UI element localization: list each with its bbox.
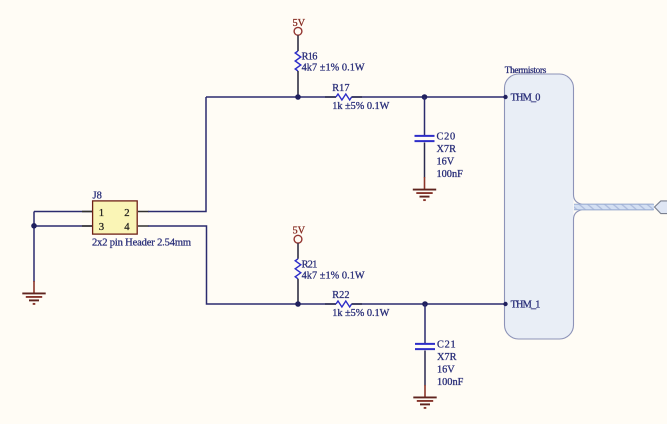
svg-text:R22: R22 <box>332 290 349 301</box>
svg-text:16V: 16V <box>437 157 455 168</box>
junction dot R21/bottom bus <box>295 301 301 307</box>
capacitor C20 <box>415 136 435 178</box>
svg-text:4k7 ±1% 0.1W: 4k7 ±1% 0.1W <box>302 270 365 281</box>
ground GND under C20 <box>413 177 436 200</box>
junction dot C21/bottom bus <box>422 301 428 307</box>
wire top bus to C20 <box>424 97 426 135</box>
svg-text:C20: C20 <box>437 132 456 143</box>
svg-text:4: 4 <box>124 221 130 233</box>
harness entry dot THM_0 <box>503 95 507 99</box>
connector J8 2x2 header <box>82 201 149 234</box>
svg-text:1: 1 <box>99 207 104 219</box>
ground GND left <box>22 281 45 304</box>
svg-text:4k7 ±1% 0.1W: 4k7 ±1% 0.1W <box>302 63 365 74</box>
wire pin4 to dropper <box>148 226 505 304</box>
svg-text:100nF: 100nF <box>437 377 464 388</box>
svg-text:1k ±5% 0.1W: 1k ±5% 0.1W <box>332 101 389 112</box>
svg-text:R17: R17 <box>332 83 349 94</box>
svg-text:R16: R16 <box>302 52 318 63</box>
resistor R21 <box>295 259 301 303</box>
junction dot at left vertical <box>31 223 37 229</box>
svg-text:X7R: X7R <box>437 144 457 155</box>
svg-text:J8: J8 <box>93 191 102 202</box>
power port 5V top <box>293 18 306 51</box>
power port 5V bottom <box>293 226 306 259</box>
wire pin2 to riser <box>148 97 206 212</box>
harness cable <box>574 204 654 209</box>
svg-text:2x2 pin Header 2.54mm: 2x2 pin Header 2.54mm <box>92 237 191 248</box>
harness cable plug connector <box>655 201 667 214</box>
capacitor C21 <box>415 344 435 386</box>
svg-text:THM_0: THM_0 <box>511 93 541 104</box>
wire top bus y=97 <box>206 96 505 98</box>
resistor R17 <box>325 94 362 100</box>
harness connector Thermistors body <box>505 74 654 339</box>
svg-text:2: 2 <box>124 207 129 219</box>
harness entry dot THM_1 <box>503 302 507 306</box>
junction dot R16/top bus <box>295 94 301 100</box>
resistor R16 <box>295 51 301 96</box>
svg-text:X7R: X7R <box>437 352 457 363</box>
wire vertical down to ground <box>33 212 35 283</box>
wire pin1 of J8 to left <box>34 211 93 213</box>
svg-text:THM_1: THM_1 <box>511 300 541 311</box>
svg-text:1k ±5% 0.1W: 1k ±5% 0.1W <box>332 308 389 319</box>
ground GND under C21 <box>413 385 436 408</box>
svg-text:R21: R21 <box>302 259 318 270</box>
svg-text:16V: 16V <box>437 365 455 376</box>
resistor R22 <box>325 301 362 307</box>
svg-text:C21: C21 <box>437 340 456 351</box>
svg-text:3: 3 <box>99 221 104 233</box>
junction dot C20/top bus <box>422 94 428 100</box>
svg-text:100nF: 100nF <box>437 169 464 180</box>
wire bottom bus to C21 <box>424 304 426 343</box>
wire pin3 of J8 to left <box>34 225 93 227</box>
svg-text:Thermistors: Thermistors <box>505 65 547 75</box>
